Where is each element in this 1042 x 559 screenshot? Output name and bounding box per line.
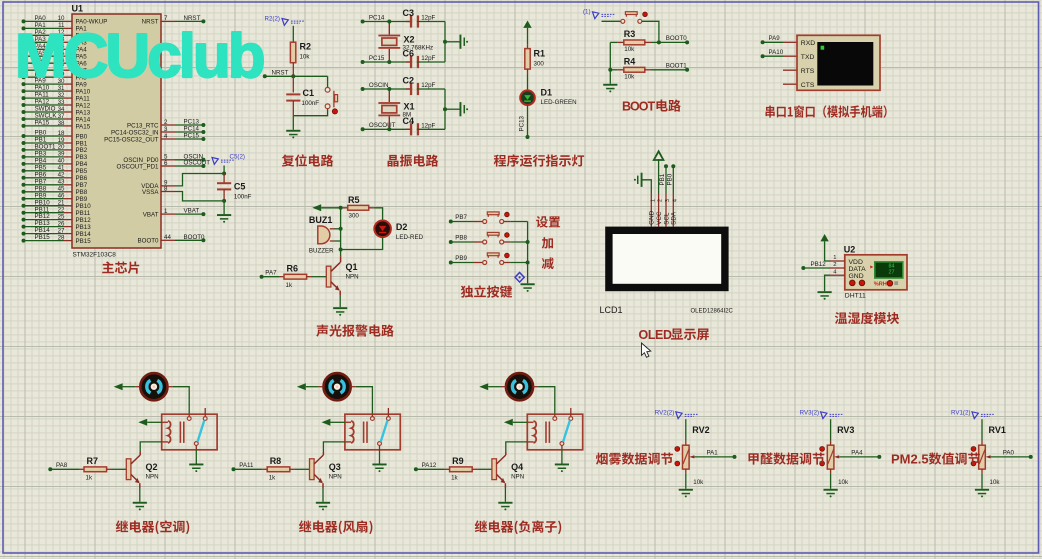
svg-text:PB0: PB0 bbox=[667, 173, 674, 185]
svg-text:RV2: RV2 bbox=[692, 425, 709, 435]
wire VBAT U1 pin 1 bbox=[161, 213, 175, 215]
ground RV2 bbox=[679, 489, 693, 491]
node OSCIN wire bbox=[361, 87, 365, 91]
wire PB7 to button bbox=[449, 220, 453, 224]
svg-text:PA9: PA9 bbox=[769, 35, 781, 42]
wire D2 bottom bbox=[341, 237, 383, 249]
node PC13 bbox=[526, 135, 530, 139]
svg-text:12pF: 12pF bbox=[421, 82, 435, 89]
svg-text:BUZ1: BUZ1 bbox=[309, 215, 333, 225]
svg-text:NPN: NPN bbox=[329, 474, 342, 481]
svg-text:RXD: RXD bbox=[801, 40, 815, 47]
junction X1 bottom bbox=[387, 127, 391, 131]
svg-text:2: 2 bbox=[658, 199, 664, 202]
ground below C5 bbox=[223, 201, 225, 214]
svg-text:8M: 8M bbox=[403, 112, 412, 119]
junction X1 top bbox=[387, 87, 391, 91]
svg-text:27: 27 bbox=[889, 269, 895, 275]
svg-text:C5: C5 bbox=[234, 182, 246, 192]
svg-text:37: 37 bbox=[58, 113, 65, 120]
display DHT11 readout bbox=[875, 262, 903, 278]
capacitor C1 100nF bbox=[292, 76, 294, 92]
transistor Q2 NPN bbox=[139, 452, 141, 455]
wire PA9 to terminal RXD bbox=[761, 40, 765, 44]
wire button bus bbox=[527, 222, 529, 284]
crystal X1 8M bbox=[388, 89, 390, 102]
wire coil to Q4 collector bbox=[506, 442, 528, 452]
junction BOOT0-button bbox=[657, 40, 661, 44]
label 继电器(空调) bbox=[116, 520, 189, 534]
svg-text:PA13: PA13 bbox=[76, 109, 91, 116]
svg-text:10k: 10k bbox=[624, 46, 635, 53]
label temperature humidity module bbox=[835, 312, 899, 324]
power arrow relay coil bbox=[322, 419, 331, 426]
wire PB8 to U1 pin 45 bbox=[22, 190, 26, 194]
svg-text:RV1(2): RV1(2) bbox=[951, 409, 971, 416]
label minus key bbox=[542, 257, 554, 269]
power arrow DHT11 bbox=[820, 234, 828, 241]
ground crystal rail bbox=[460, 35, 462, 49]
svg-text:CTS: CTS bbox=[801, 82, 815, 89]
svg-text:PC15-OSC32_OUT: PC15-OSC32_OUT bbox=[104, 136, 159, 143]
wire PB7 to U1 pin 43 bbox=[22, 183, 26, 187]
wire PB10 to U1 pin 21 bbox=[22, 204, 26, 208]
svg-text:100nF: 100nF bbox=[234, 194, 252, 201]
svg-text:PB13: PB13 bbox=[35, 220, 51, 227]
svg-text:PB8: PB8 bbox=[35, 185, 47, 192]
pushbutton PB8 bbox=[483, 240, 487, 244]
junction R3-R4 rail bbox=[608, 68, 612, 72]
svg-text:PA1: PA1 bbox=[707, 450, 719, 457]
label sound-light alarm circuit bbox=[316, 324, 394, 336]
svg-text:10k: 10k bbox=[624, 73, 635, 80]
resistor R6 1k bbox=[279, 276, 284, 278]
svg-text:PA8: PA8 bbox=[56, 462, 68, 469]
probe RV1(2) bbox=[972, 412, 978, 419]
label crystal circuit bbox=[388, 154, 439, 166]
pushbutton reset bbox=[327, 76, 329, 87]
svg-text:RV1: RV1 bbox=[989, 425, 1006, 435]
ground BOOT circuit bbox=[603, 84, 617, 86]
svg-text:PB7: PB7 bbox=[76, 182, 88, 189]
svg-text:PB5: PB5 bbox=[76, 168, 88, 175]
wire PC13 to U1 pin 2 bbox=[161, 124, 175, 126]
junction R5-buzzer rail bbox=[339, 206, 343, 210]
wire PB11 to U1 pin 22 bbox=[22, 211, 26, 215]
wire PB3 to U1 pin 39 bbox=[22, 155, 26, 159]
wire PA12 input bbox=[414, 467, 418, 471]
label independent keys bbox=[461, 285, 512, 297]
svg-text:44: 44 bbox=[164, 234, 171, 241]
svg-text:PB10: PB10 bbox=[76, 203, 92, 210]
wire PA11 input bbox=[232, 467, 236, 471]
svg-text:PB3: PB3 bbox=[35, 151, 47, 158]
probe (1) bbox=[593, 12, 599, 19]
node OSCOUT wire bbox=[361, 127, 365, 131]
svg-text:PB4: PB4 bbox=[76, 161, 88, 168]
relay switch blade bbox=[198, 420, 205, 442]
wire PA12 to U1 pin 33 bbox=[22, 103, 26, 107]
svg-text:BOOT0: BOOT0 bbox=[666, 35, 688, 42]
wire PA15 to U1 pin 38 bbox=[22, 124, 26, 128]
wire Q4 emitter to ground bbox=[504, 483, 506, 488]
ground Q3 bbox=[316, 502, 330, 504]
svg-text:PB11: PB11 bbox=[35, 206, 50, 213]
wire relay common to ground bbox=[561, 445, 563, 449]
svg-text:D1: D1 bbox=[541, 88, 553, 98]
svg-text:PB9: PB9 bbox=[76, 196, 88, 203]
svg-text:1k: 1k bbox=[269, 475, 276, 482]
svg-text:PB15: PB15 bbox=[76, 238, 92, 245]
pushbutton PB9 bbox=[483, 261, 487, 265]
svg-text:X1: X1 bbox=[404, 102, 415, 112]
svg-text:C3: C3 bbox=[403, 8, 415, 18]
svg-text:PB3: PB3 bbox=[76, 154, 88, 161]
svg-text:BUZZER: BUZZER bbox=[309, 248, 334, 255]
ground relay bbox=[555, 464, 569, 466]
wire PB12 to DATA pin 2 bbox=[801, 266, 805, 270]
wire coil to Q2 collector bbox=[140, 442, 162, 452]
svg-text:R9: R9 bbox=[452, 456, 464, 466]
wire OLED SCL PB1 bbox=[665, 168, 667, 194]
wire PB6 to U1 pin 42 bbox=[22, 176, 26, 180]
svg-text:PB12: PB12 bbox=[76, 217, 92, 224]
svg-text:R1: R1 bbox=[534, 49, 546, 59]
wire PA6 to U1 pin 16 bbox=[22, 61, 26, 65]
svg-text:PB1: PB1 bbox=[76, 140, 88, 147]
relay RL coil and contacts bbox=[527, 414, 582, 450]
svg-text:18: 18 bbox=[58, 130, 65, 137]
svg-text:PB12: PB12 bbox=[35, 213, 51, 220]
svg-text:PC13: PC13 bbox=[184, 119, 200, 126]
svg-text:300: 300 bbox=[534, 61, 545, 68]
svg-text:PC14: PC14 bbox=[369, 14, 385, 21]
wire PA11 to U1 pin 32 bbox=[22, 96, 26, 100]
wire RV2 wiper to PA1 bbox=[689, 455, 694, 458]
svg-text:10k: 10k bbox=[990, 479, 1001, 486]
svg-text:40: 40 bbox=[58, 158, 65, 165]
wire R5 to D2 bbox=[374, 208, 383, 220]
svg-text:VBAT: VBAT bbox=[184, 208, 200, 215]
wire NRST to U1 pin 7 bbox=[161, 20, 175, 22]
svg-text:PA4: PA4 bbox=[851, 450, 863, 457]
svg-text:41: 41 bbox=[58, 165, 65, 172]
svg-text:6: 6 bbox=[164, 160, 168, 167]
svg-text:DHT11: DHT11 bbox=[845, 293, 866, 300]
svg-text:19: 19 bbox=[58, 137, 65, 144]
ground DHT11 bbox=[818, 291, 832, 293]
svg-text:21: 21 bbox=[58, 200, 65, 207]
transistor Q1 NPN bbox=[340, 250, 342, 257]
svg-text:3: 3 bbox=[665, 199, 671, 202]
power arrow relay coil bbox=[504, 419, 513, 426]
wire PB14 to U1 pin 27 bbox=[22, 232, 26, 236]
mouse cursor bbox=[642, 343, 651, 357]
capacitor C3 12pF bbox=[406, 21, 412, 23]
ground relay bbox=[372, 464, 386, 466]
svg-text:OLED: OLED bbox=[639, 328, 672, 342]
wire PA10 to U1 pin 31 bbox=[22, 89, 26, 93]
wire Q1 emitter to ground bbox=[339, 291, 341, 296]
wire PC14 to U1 pin 3 bbox=[161, 131, 175, 133]
svg-text:PA12: PA12 bbox=[76, 102, 91, 109]
svg-text:C2: C2 bbox=[403, 76, 415, 86]
svg-text:SDA: SDA bbox=[671, 211, 678, 225]
svg-text:STM32F103C8: STM32F103C8 bbox=[73, 252, 117, 259]
svg-text:25: 25 bbox=[58, 213, 65, 220]
svg-text:28: 28 bbox=[58, 234, 65, 241]
relay RL coil and contacts bbox=[162, 414, 217, 450]
crystal X2 32.768KHz bbox=[388, 22, 390, 35]
svg-text:BOOT: BOOT bbox=[622, 100, 655, 114]
ground Q2 bbox=[133, 502, 147, 504]
ground reset circuit bbox=[292, 116, 294, 130]
svg-text:MCUclub: MCUclub bbox=[15, 22, 264, 91]
relay switch blade bbox=[381, 420, 388, 442]
wire PB0 to U1 pin 18 bbox=[22, 134, 26, 138]
svg-text:20: 20 bbox=[58, 144, 65, 151]
label reset circuit bbox=[282, 154, 334, 166]
resistor R4 10k bbox=[610, 69, 617, 71]
svg-text:PB1: PB1 bbox=[659, 173, 666, 185]
junction bus PB8 bbox=[526, 240, 530, 244]
wire VDDA U1 pin 9 to C5 top rail bbox=[161, 185, 175, 187]
svg-text:PA12: PA12 bbox=[35, 99, 50, 106]
wire OLED SDA PB0 bbox=[672, 168, 674, 194]
svg-text:PC13: PC13 bbox=[519, 115, 526, 131]
svg-text:10k: 10k bbox=[838, 479, 849, 486]
wire motor to relay contact bbox=[167, 386, 172, 388]
junction X2 top bbox=[387, 20, 391, 24]
probe C5(2) bbox=[212, 158, 218, 165]
virtual terminal serial window bbox=[783, 69, 797, 71]
power arrow indicator bbox=[523, 21, 531, 28]
svg-text:PA15: PA15 bbox=[35, 120, 50, 127]
svg-text:1: 1 bbox=[164, 208, 168, 215]
wire BOOT left rail bbox=[609, 42, 611, 83]
node BOOT0 net bbox=[659, 41, 687, 43]
motor 继电器(风扇) bbox=[324, 373, 351, 400]
label main chip bbox=[102, 261, 139, 273]
svg-text:45: 45 bbox=[58, 186, 65, 193]
wire PB12 to U1 pin 25 bbox=[22, 218, 26, 222]
svg-text:VSSA: VSSA bbox=[142, 189, 159, 196]
svg-text:3: 3 bbox=[164, 126, 168, 133]
svg-text:SWCLK: SWCLK bbox=[35, 113, 58, 120]
svg-text:RV3: RV3 bbox=[837, 425, 854, 435]
svg-text:PA0: PA0 bbox=[35, 15, 47, 22]
svg-text:Q4: Q4 bbox=[511, 462, 523, 472]
svg-text:10k: 10k bbox=[693, 479, 704, 486]
svg-text:PB8: PB8 bbox=[76, 189, 88, 196]
resistor R1 300 bbox=[527, 44, 529, 49]
wire PB8 to button bbox=[449, 240, 453, 244]
label 甲醛数据调节 bbox=[748, 452, 824, 464]
svg-text:12pF: 12pF bbox=[421, 15, 435, 22]
wire RV3 wiper to PA4 bbox=[834, 455, 839, 458]
wire PA3 to U1 pin 13 bbox=[22, 40, 26, 44]
svg-text:300: 300 bbox=[349, 213, 360, 220]
node PC15 wire bbox=[361, 60, 365, 64]
svg-text:R5: R5 bbox=[348, 195, 360, 205]
svg-text:22: 22 bbox=[58, 206, 65, 213]
wire BOOT1 to U1 pin 20 bbox=[22, 148, 26, 152]
wire RV2 to ground bbox=[685, 474, 687, 489]
svg-text:%RH: %RH bbox=[874, 281, 887, 287]
wire PA10 to terminal TXD bbox=[761, 54, 765, 58]
svg-text:38: 38 bbox=[58, 120, 65, 127]
svg-text:PB13: PB13 bbox=[76, 224, 92, 231]
svg-text:43: 43 bbox=[58, 179, 65, 186]
svg-text:BOOT1: BOOT1 bbox=[666, 63, 688, 70]
svg-text:LED-GREEN: LED-GREEN bbox=[541, 99, 577, 106]
label serial window title bbox=[766, 105, 887, 117]
wire motor to relay contact bbox=[533, 386, 538, 388]
label plus key bbox=[542, 237, 553, 249]
wire Q2 emitter to ground bbox=[139, 483, 141, 488]
svg-text:OSCOUT: OSCOUT bbox=[184, 160, 211, 167]
svg-text:R2(2): R2(2) bbox=[265, 16, 280, 23]
svg-text:PM2.5: PM2.5 bbox=[891, 452, 929, 467]
svg-text:PB2: PB2 bbox=[76, 147, 88, 154]
svg-text:34: 34 bbox=[58, 106, 65, 113]
ground RV3 bbox=[824, 489, 838, 491]
svg-text:PB14: PB14 bbox=[76, 231, 92, 238]
junction R2-C1 bbox=[291, 74, 295, 78]
transistor Q4 NPN bbox=[505, 452, 507, 455]
svg-text:GND: GND bbox=[849, 273, 864, 280]
wire RV1 to ground bbox=[981, 474, 983, 489]
svg-text:PB11: PB11 bbox=[76, 210, 91, 217]
pushbutton PB7 bbox=[483, 220, 487, 224]
svg-text:Q1: Q1 bbox=[346, 262, 358, 272]
svg-text:4: 4 bbox=[164, 133, 168, 140]
wire PB9 to U1 pin 46 bbox=[22, 197, 26, 201]
svg-text:R4: R4 bbox=[624, 57, 636, 67]
svg-text:RTS: RTS bbox=[801, 68, 815, 75]
svg-text:1k: 1k bbox=[451, 475, 458, 482]
svg-text:39: 39 bbox=[58, 151, 65, 158]
svg-text:PB1: PB1 bbox=[35, 137, 47, 144]
wire PB4 to U1 pin 40 bbox=[22, 162, 26, 166]
label 继电器(风扇) bbox=[299, 520, 372, 534]
svg-text:LCD1: LCD1 bbox=[600, 305, 623, 315]
buttons DHT11 bbox=[850, 280, 856, 286]
pushbutton BOOT bbox=[602, 20, 621, 22]
power arrow OLED pin2 bbox=[654, 151, 664, 160]
node BOOT1 net bbox=[685, 68, 689, 72]
svg-text:SWDIO: SWDIO bbox=[35, 106, 56, 113]
svg-text:PA0: PA0 bbox=[1003, 450, 1015, 457]
svg-text:4: 4 bbox=[833, 269, 837, 275]
svg-text:PA12: PA12 bbox=[422, 462, 437, 469]
svg-text:4: 4 bbox=[672, 199, 678, 202]
node VSSA-C5 junction bbox=[222, 199, 226, 203]
svg-text:PC15: PC15 bbox=[369, 55, 385, 62]
svg-text:VDD: VDD bbox=[849, 259, 863, 266]
svg-text:PB4: PB4 bbox=[35, 157, 47, 164]
wire OSCOUT to U1 pin 6 bbox=[161, 165, 175, 167]
svg-text:PB7: PB7 bbox=[455, 214, 467, 221]
wire crystal right rail bbox=[444, 89, 446, 129]
svg-text:PB5: PB5 bbox=[35, 164, 47, 171]
resistor R5 300 bbox=[343, 207, 348, 209]
wire PA8 to U1 pin 29 bbox=[22, 75, 26, 79]
power arrow motor left bbox=[479, 383, 488, 390]
relay RL coil and contacts bbox=[345, 414, 400, 450]
svg-text:2: 2 bbox=[164, 119, 168, 126]
ground crystal rail bbox=[460, 102, 462, 116]
svg-text:PB14: PB14 bbox=[35, 227, 51, 234]
svg-text:PA15: PA15 bbox=[76, 123, 91, 130]
svg-text:TXD: TXD bbox=[801, 54, 815, 61]
power arrow relay coil bbox=[138, 419, 147, 426]
svg-text:R7: R7 bbox=[87, 456, 99, 466]
ground Q4 bbox=[498, 502, 512, 504]
junction buzzer top bbox=[339, 227, 343, 231]
wire SWDIO to U1 pin 34 bbox=[22, 110, 26, 114]
svg-text:8: 8 bbox=[164, 185, 168, 192]
wire BOOT0 to U1 pin 44 bbox=[161, 239, 175, 241]
ground alarm bbox=[333, 307, 347, 309]
svg-text:12pF: 12pF bbox=[421, 122, 435, 129]
probe R2(2) bbox=[282, 19, 288, 26]
svg-text:C1: C1 bbox=[303, 88, 315, 98]
svg-text:26: 26 bbox=[58, 220, 65, 227]
svg-text:Q3: Q3 bbox=[329, 462, 341, 472]
svg-text:R8: R8 bbox=[270, 456, 282, 466]
wire PA7 to R6 bbox=[260, 275, 264, 279]
ground relay bbox=[189, 464, 203, 466]
svg-text:U2: U2 bbox=[844, 245, 856, 255]
svg-text:BOOT0: BOOT0 bbox=[138, 238, 160, 245]
wire PA4 to U1 pin 14 bbox=[22, 47, 26, 51]
svg-text:PB12: PB12 bbox=[811, 261, 827, 268]
svg-text:PA11: PA11 bbox=[76, 95, 91, 102]
svg-text:D2: D2 bbox=[396, 222, 408, 232]
svg-text:NRST: NRST bbox=[184, 15, 201, 22]
wire coil to Q3 collector bbox=[323, 442, 345, 452]
svg-text:100nF: 100nF bbox=[302, 100, 320, 107]
capacitor C5 100nF bbox=[223, 174, 225, 184]
svg-text:42: 42 bbox=[58, 172, 65, 179]
wire RV1 wiper to PA0 bbox=[985, 455, 990, 458]
motor 继电器(空调) bbox=[140, 373, 167, 400]
resistor R2 10k bbox=[290, 42, 295, 63]
svg-text:PA7: PA7 bbox=[265, 270, 277, 277]
probe RV2(2) bbox=[676, 412, 682, 419]
ground buttons bbox=[521, 283, 535, 285]
label program run indicator bbox=[494, 154, 584, 166]
wire OSCIN to U1 pin 5 bbox=[161, 159, 175, 161]
power arrow motor left bbox=[114, 383, 123, 390]
wire PB13 to U1 pin 26 bbox=[22, 225, 26, 229]
wire PC15 to U1 pin 4 bbox=[161, 138, 175, 140]
capacitor C2 12pF bbox=[406, 88, 412, 90]
wire motor to relay contact bbox=[351, 386, 356, 388]
svg-text:(1): (1) bbox=[583, 9, 591, 16]
svg-text:PC14: PC14 bbox=[184, 126, 200, 133]
svg-text:R3: R3 bbox=[624, 29, 636, 39]
svg-text:PC13_RTC: PC13_RTC bbox=[127, 122, 159, 129]
wire RV3 to ground bbox=[830, 474, 832, 489]
wire relay common to ground bbox=[195, 445, 197, 449]
junction rail-Q1 bbox=[339, 248, 343, 252]
wire D1 to PC13 node bbox=[527, 105, 529, 136]
label 继电器(负离子) bbox=[475, 520, 561, 534]
wire PA8 input bbox=[48, 467, 52, 471]
svg-text:2: 2 bbox=[833, 262, 836, 268]
